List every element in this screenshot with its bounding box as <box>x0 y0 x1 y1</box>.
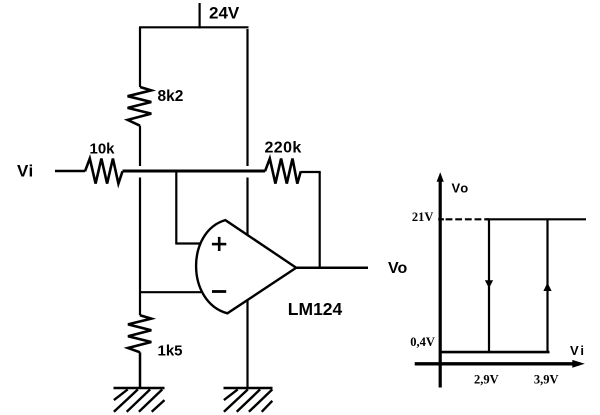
svg-text:21V: 21V <box>412 210 434 224</box>
svg-text:0,4V: 0,4V <box>410 335 435 349</box>
svg-text:220k: 220k <box>265 140 302 157</box>
svg-text:8k2: 8k2 <box>158 88 184 105</box>
svg-text:Vi: Vi <box>570 343 586 358</box>
svg-text:LM124: LM124 <box>288 299 343 319</box>
svg-text:Vi: Vi <box>17 162 34 181</box>
svg-text:Vo: Vo <box>388 260 407 277</box>
svg-text:2,9V: 2,9V <box>474 372 499 386</box>
svg-text:Vo: Vo <box>452 181 470 196</box>
svg-text:10k: 10k <box>90 140 116 157</box>
svg-text:24V: 24V <box>209 3 240 22</box>
svg-text:3,9V: 3,9V <box>534 372 559 386</box>
svg-text:1k5: 1k5 <box>158 343 183 360</box>
